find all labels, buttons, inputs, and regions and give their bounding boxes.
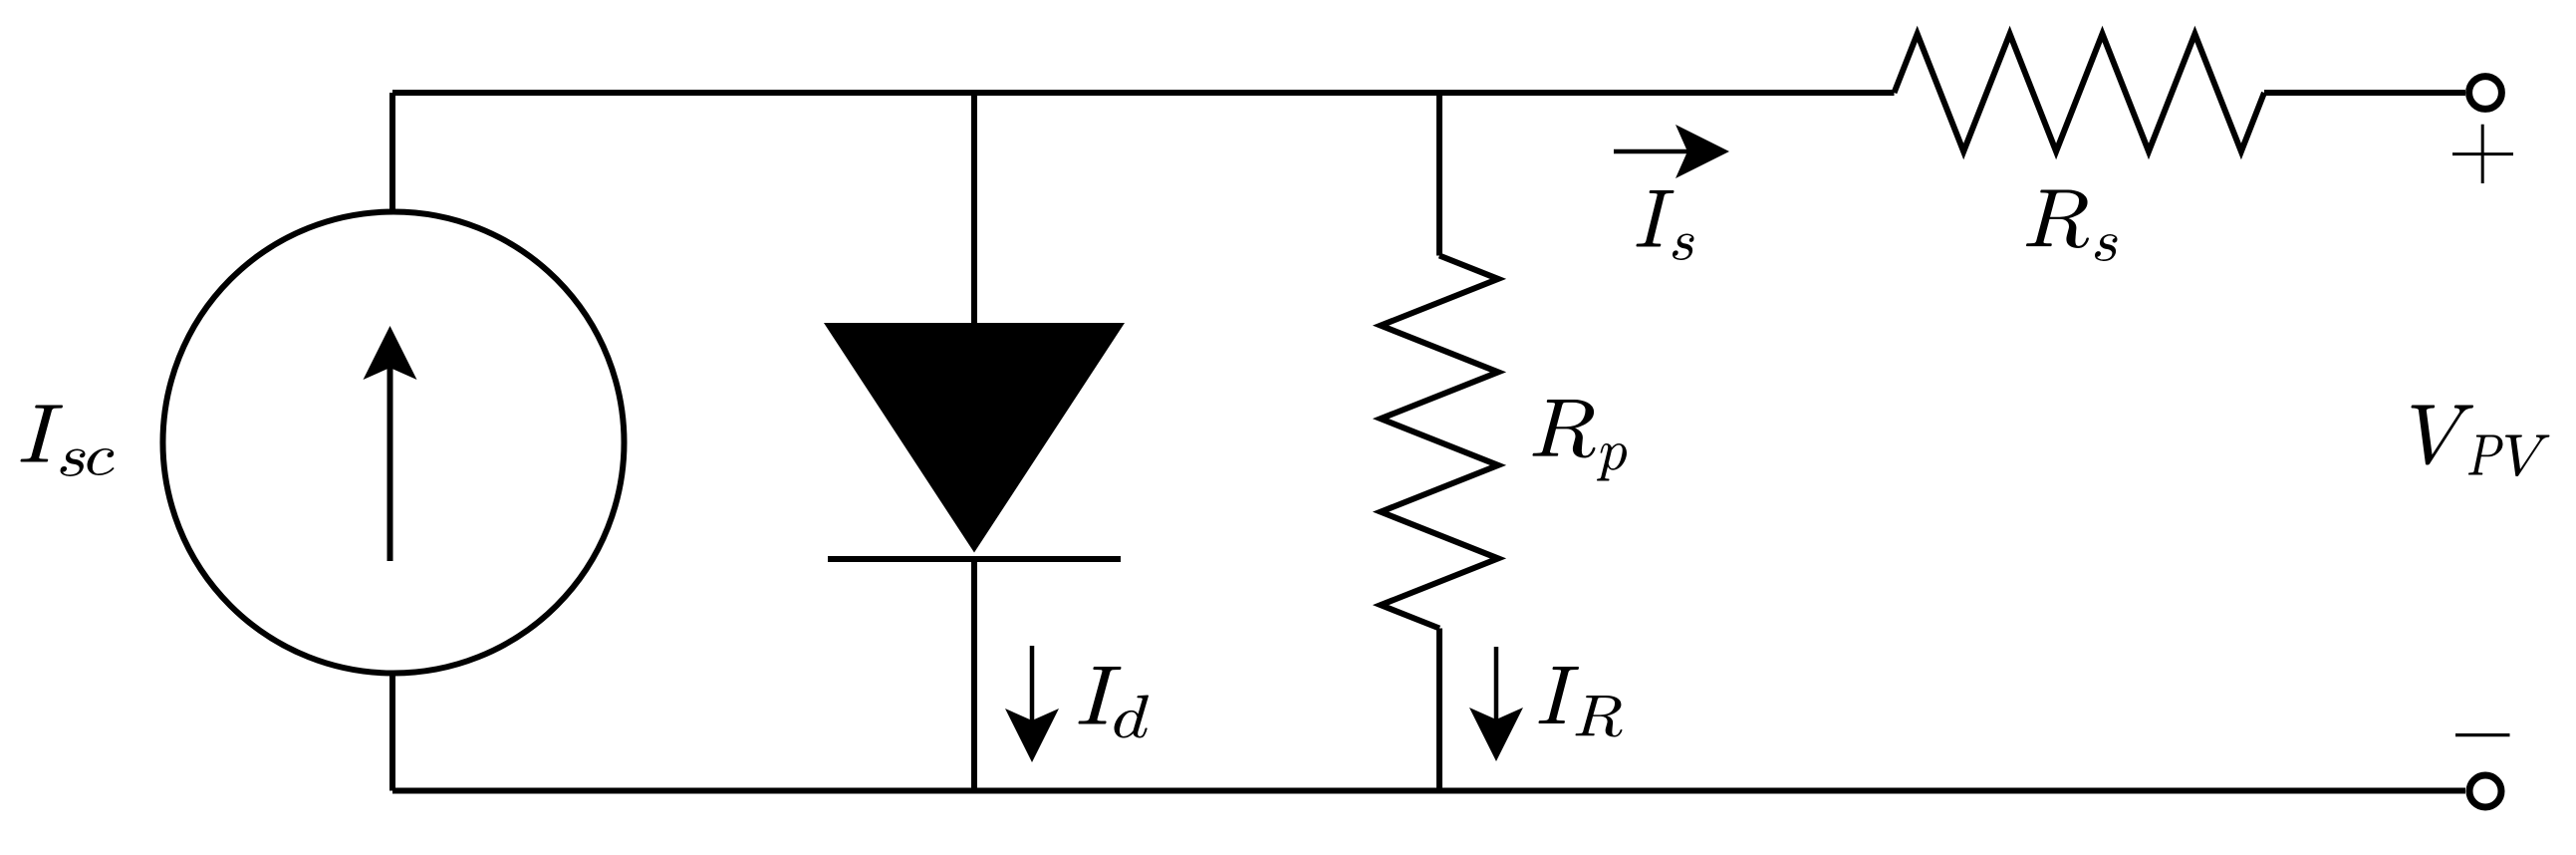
wire diode branch bottom	[971, 557, 977, 791]
wire left branch top (source to top rail)	[389, 93, 395, 212]
wire left branch bottom (source to bottom rail)	[389, 673, 395, 791]
label Id	[1079, 667, 1150, 738]
label VPV	[2412, 406, 2550, 477]
minus sign	[2455, 733, 2510, 736]
current source arrow shaft	[387, 365, 393, 561]
label Rs	[2026, 190, 2118, 261]
diode D1 triangle	[824, 323, 1125, 553]
arrow IR shaft	[1494, 647, 1499, 722]
current source Isc circle	[163, 212, 625, 674]
label Rp	[1532, 400, 1626, 480]
wire top rail from Rs to positive terminal	[2264, 90, 2465, 96]
plus sign	[2452, 125, 2513, 183]
arrow Id shaft	[1030, 646, 1035, 723]
resistor Rs zigzag	[1895, 34, 2265, 151]
label IR	[1539, 667, 1623, 736]
positive terminal node	[2469, 77, 2502, 110]
current source arrow head	[364, 326, 417, 380]
negative terminal node	[2469, 775, 2501, 807]
wire top rail from current source to Rs	[392, 90, 1895, 96]
arrow Is head	[1675, 125, 1729, 178]
wire Rp branch bottom	[1436, 629, 1442, 791]
label Isc	[20, 406, 114, 476]
wire diode branch top	[971, 93, 977, 325]
arrow IR head	[1469, 708, 1523, 761]
arrow Is shaft	[1614, 149, 1690, 154]
resistor Rp zigzag	[1381, 256, 1498, 629]
wire Rp branch top	[1436, 93, 1442, 256]
wire bottom rail	[392, 788, 2465, 794]
label Is	[1636, 190, 1693, 260]
arrow Id head	[1005, 709, 1059, 762]
diode D1 cathode bar	[828, 556, 1121, 562]
